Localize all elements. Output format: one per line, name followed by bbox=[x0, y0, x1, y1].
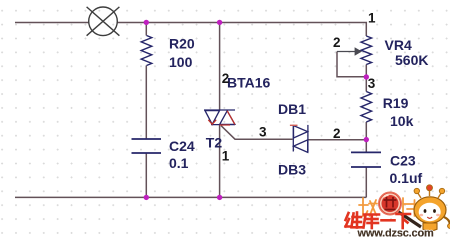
svg-text:560K: 560K bbox=[395, 52, 428, 68]
svg-text:C23: C23 bbox=[390, 153, 416, 169]
svg-text:DB3: DB3 bbox=[278, 162, 306, 178]
svg-text:3: 3 bbox=[368, 76, 376, 91]
svg-text:3: 3 bbox=[259, 125, 267, 140]
svg-text:BTA16: BTA16 bbox=[227, 75, 271, 91]
svg-text:1: 1 bbox=[368, 11, 376, 26]
svg-text:0.1uf: 0.1uf bbox=[390, 170, 423, 186]
svg-text:2: 2 bbox=[333, 126, 341, 141]
svg-text:1: 1 bbox=[222, 149, 230, 164]
svg-text:R20: R20 bbox=[169, 36, 195, 52]
svg-text:10k: 10k bbox=[390, 113, 414, 129]
svg-text:0.1: 0.1 bbox=[169, 155, 189, 171]
svg-text:2: 2 bbox=[222, 71, 230, 86]
svg-text:2: 2 bbox=[333, 35, 341, 50]
svg-text:100: 100 bbox=[169, 54, 193, 70]
svg-text:R19: R19 bbox=[383, 95, 409, 111]
svg-text:VR4: VR4 bbox=[385, 37, 412, 53]
svg-text:www.dzsc.com: www.dzsc.com bbox=[357, 228, 434, 240]
svg-text:DB1: DB1 bbox=[278, 101, 306, 117]
svg-text:C24: C24 bbox=[169, 138, 195, 154]
svg-text:T2: T2 bbox=[206, 134, 223, 150]
